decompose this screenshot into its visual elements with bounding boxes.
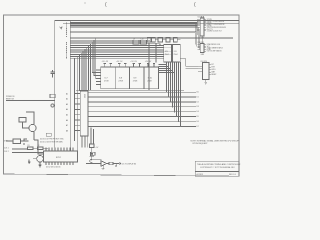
small part circle on edge [51, 104, 54, 107]
svg-text:IC5: IC5 [165, 51, 168, 53]
shift register IC6 body [173, 45, 181, 63]
wire left fan drop 3 [77, 56, 79, 151]
wire CPU data line D2 [88, 101, 196, 103]
bus label vertical text ADDRESS [66, 22, 68, 37]
svg-text:2708: 2708 [147, 81, 152, 83]
resistor R20 block [19, 117, 26, 121]
wire EPROM right pin rung 3 [158, 68, 170, 70]
svg-text:REV 3 6: REV 3 6 [229, 174, 236, 176]
wire left fan drop 2 [73, 58, 75, 141]
wire q2 base [22, 122, 28, 128]
wire address bus line 3 [70, 44, 164, 46]
wire IC5 bottom pin drop 1 to D0 [166, 62, 168, 92]
wire EPROM right pin rung 4 [158, 70, 172, 72]
wire bus A line 2 [70, 23, 197, 25]
wire row3 line [12, 151, 44, 153]
wire into 8212 left [34, 140, 44, 154]
wire left fan drop 5 [80, 53, 82, 91]
wire R2 out [43, 147, 48, 149]
svg-text:2708: 2708 [133, 81, 138, 83]
small box pair above 8212 [46, 133, 51, 136]
svg-text:CLK TO DISPLAY BD: CLK TO DISPLAY BD [121, 162, 136, 165]
IC4 ground mark [204, 80, 207, 85]
EPROM divider 1 [114, 67, 116, 89]
svg-text:(: ( [194, 2, 196, 8]
wire address bus line 7 [70, 50, 164, 52]
board outline (inner box left edge + top edge) [55, 20, 239, 151]
IC2 top stubs [201, 16, 203, 18]
wire address bus line 11 [70, 57, 164, 59]
wire diode to opamp [92, 156, 102, 160]
wire q2 collector up [26, 112, 34, 125]
svg-text:POWER ON: POWER ON [6, 96, 14, 98]
wire line under EPROM [76, 89, 184, 91]
title block box [195, 161, 239, 176]
wire left fan drop 10 [89, 44, 91, 90]
wire address bus line 5 [70, 46, 164, 48]
resistor R31 on board edge [50, 94, 55, 97]
svg-text:+5V -5V: +5V -5V [116, 61, 123, 63]
wire row2 line [12, 148, 28, 150]
wire CPU data line D4 [88, 111, 196, 113]
bus label vertical text CONTROL [66, 42, 68, 59]
wire bus B line 1 [70, 30, 196, 32]
svg-text:+5V -5V: +5V -5V [145, 61, 152, 63]
wire bus A line 4 [70, 26, 197, 28]
CPU left pin 5 [74, 114, 80, 116]
wire EPROM left pin stub 4 [96, 80, 101, 82]
wire q2 emitter down [33, 131, 35, 140]
svg-text:INT: INT [211, 64, 214, 66]
wire long line y37.5 [70, 37, 233, 39]
CPU left pin 6 [74, 119, 80, 121]
EPROM top decoupling marks cell3 [132, 63, 140, 65]
svg-text:COPYRIGHT © 1977 TECHNICAL INC: COPYRIGHT © 1977 TECHNICAL INC. [200, 166, 236, 169]
wire bus line y23 [63, 22, 239, 24]
wire IC6 bottom pin drop 6 to D5 [176, 62, 178, 117]
wire left fan drop 8 [86, 47, 88, 91]
wire left fan drop 11 to EPROM pin [92, 42, 101, 73]
wire gate drop A [148, 43, 150, 90]
EPROM divider 2 [129, 67, 131, 89]
wire CPU data line D0 [88, 91, 196, 93]
CPU left pin 4 [74, 108, 80, 110]
svg-text:D2: D2 [196, 101, 198, 103]
wire CPU data line D6 [88, 121, 196, 123]
transistor Q1 circle [37, 155, 44, 162]
EPROM bank IC7-IC10 outline [101, 67, 159, 89]
svg-text:D1 D2 D3 D4 D5 D6: D1 D2 D3 D4 D5 D6 [46, 166, 61, 168]
wire bus A line 3 [70, 24, 197, 26]
resistor R7 [109, 162, 113, 165]
8212 bottom pins [46, 162, 73, 165]
svg-text:D4 D5 D6 D7 PH1 PH2 RDY SYNC: D4 D5 D6 D7 PH1 PH2 RDY SYNC [40, 138, 65, 140]
wire to diode [91, 147, 93, 153]
svg-text:D7: D7 [196, 126, 198, 128]
svg-text:THE ALGORITHM: TIMING AND CONT: THE ALGORITHM: TIMING AND CONTROLLER [197, 163, 241, 166]
wire IC6 bottom pin drop 8 to D7 [180, 62, 182, 126]
EPROM top pin pair cell2 [119, 64, 125, 67]
wire left fan drop 7 [84, 49, 86, 91]
wire EPROM left pin stub 1 [96, 69, 101, 71]
svg-text:+5V -5V: +5V -5V [102, 61, 109, 63]
wire drop to bottom parts [91, 127, 94, 144]
out terminal circle [119, 163, 121, 165]
gate G6 small box [166, 38, 170, 42]
EPROM top decoupling marks cell1 [104, 63, 112, 65]
svg-text:2504: 2504 [165, 54, 169, 56]
svg-text:INTA STATUS LINE: INTA STATUS LINE [207, 43, 220, 46]
wire address bus line 10 [70, 55, 164, 57]
svg-text:A 12813: A 12813 [196, 173, 203, 176]
resistor R2 [37, 147, 43, 149]
wire EPROM right pin rung 5 [158, 72, 174, 74]
cap C6 [115, 163, 117, 166]
CPU IC1 8080 body [80, 91, 88, 136]
svg-text:A2: A2 [66, 98, 68, 101]
svg-text:8212: 8212 [56, 157, 62, 159]
wire gather bar IC2 [196, 20, 198, 35]
svg-text:A3: A3 [66, 103, 68, 106]
svg-text:D4: D4 [196, 111, 198, 113]
svg-text:A6: A6 [66, 119, 68, 122]
resistor R6 [90, 152, 95, 155]
IC3 status latch rect [200, 44, 204, 53]
wire CPU data line D5 [88, 116, 196, 118]
CPU left pin 1 [74, 92, 80, 94]
wire IC6 bottom pin drop 7 to D6 [178, 62, 180, 122]
IC2 clock generator rect [200, 18, 204, 36]
resistor R1 [27, 147, 33, 149]
svg-text:C9: C9 [133, 39, 135, 41]
diode D1 [90, 153, 93, 156]
wire CPU data line D1 [88, 96, 196, 98]
gate G3 small box [147, 38, 151, 42]
svg-text:C10: C10 [141, 39, 144, 41]
title block divider [195, 171, 239, 173]
latch IC11 8212 body [44, 151, 78, 162]
wire IC6 bottom pin drop 5 to D4 [174, 62, 176, 112]
CPU bottom pin stubs [81, 136, 87, 148]
wire bus B line 2 [70, 32, 195, 34]
svg-text:R2: R2 [37, 145, 39, 147]
svg-text:UPON REQUEST: UPON REQUEST [192, 143, 208, 145]
svg-text:INTE: INTE [211, 67, 214, 69]
svg-text:A1: A1 [66, 92, 68, 95]
wire IC6 left feed rungs [162, 47, 173, 54]
svg-text:A8: A8 [66, 129, 68, 132]
wire left fan drop 6 [82, 51, 84, 91]
wire EPROM right pin rung 1 [158, 64, 166, 66]
gate G5 small box [158, 38, 163, 42]
svg-text:4.0 MHZ CLOCK OUT: 4.0 MHZ CLOCK OUT [207, 30, 222, 32]
wire IC2 to IC3 [201, 36, 203, 44]
svg-text:NOTE: INTERNAL SIGNAL LINES WI: NOTE: INTERNAL SIGNAL LINES WITHIN CPU G… [190, 140, 239, 143]
wire address bus line 1 [70, 39, 150, 41]
wire xtal row [6, 139, 29, 145]
gate G1 small box [133, 40, 139, 44]
wire EPROM right pin rung 2 [158, 66, 168, 68]
wire left fan drop 9 [88, 46, 90, 91]
wire buffer out [107, 162, 109, 164]
IC2 left pins [197, 20, 200, 31]
svg-text:HOLD: HOLD [211, 69, 216, 71]
svg-text:(: ( [105, 2, 107, 8]
svg-text:2708: 2708 [104, 80, 109, 82]
wire R7 out [113, 162, 119, 164]
wire left fan drop 13 to EPROM pin [96, 38, 101, 79]
wire clock out line [86, 163, 101, 165]
crystal XTAL box [13, 139, 21, 143]
transistor Q3 marks [89, 155, 92, 163]
stray mark dot top [85, 2, 86, 3]
svg-text:A5: A5 [66, 113, 68, 116]
wire R1-R2 [33, 147, 37, 149]
cap C12 near edge [51, 70, 55, 78]
wire bus collector bar [70, 20, 72, 151]
transistor Q2 circle [29, 124, 36, 131]
svg-text:IC10: IC10 [148, 78, 153, 80]
wire gate drop B [155, 43, 157, 63]
wire address bus line 6 [70, 48, 164, 50]
svg-text:D1: D1 [196, 96, 198, 98]
svg-text:D5: D5 [196, 116, 198, 118]
junction dots on data lines [166, 92, 181, 127]
svg-text:2708: 2708 [118, 80, 123, 82]
buffer U2 triangle [101, 161, 107, 166]
IC4 bus driver rect [203, 63, 209, 80]
svg-text:IC4 8216: IC4 8216 [201, 61, 208, 63]
resistor R5 bottom [89, 144, 94, 147]
svg-text:8080: 8080 [83, 94, 85, 98]
wire CPU data line D3 [88, 106, 196, 108]
wire IC6 right to bus driver [180, 59, 198, 69]
IC4 left pins [198, 66, 203, 71]
svg-text:IC6: IC6 [174, 51, 177, 53]
svg-text:R1: R1 [27, 145, 29, 147]
wire IC5 bottom pin drop 3 to D2 [170, 62, 172, 102]
svg-text:CLK 1: CLK 1 [4, 147, 9, 149]
CPU left pin 2 [74, 98, 80, 100]
svg-text:IC8: IC8 [119, 77, 123, 79]
wire EPROM left pin stub 5 [96, 83, 101, 85]
shift register IC5 body [164, 45, 172, 63]
EPROM divider 3 [143, 67, 145, 89]
junction dots EPROM right rungs [166, 64, 175, 73]
gate G7 small box [174, 38, 178, 42]
CPU left pin 7 [74, 124, 80, 126]
EPROM top pin pair cell1 [105, 64, 111, 67]
IC3 left pins [197, 45, 200, 50]
svg-text:D0: D0 [196, 92, 198, 94]
wire bus A line 1 [70, 21, 197, 23]
svg-text:CLK 2: CLK 2 [4, 151, 9, 153]
svg-text:+5V: +5V [95, 147, 98, 149]
IC2 right pins [204, 20, 206, 31]
ground below q1 [38, 162, 41, 167]
svg-text:D0 D1 D2 D3 INT INTE WR DBIN: D0 D1 D2 D3 INT INTE WR DBIN [40, 141, 62, 143]
svg-text:2504: 2504 [174, 54, 178, 56]
wire gate links [139, 40, 181, 42]
CPU left pin 3 [74, 103, 80, 105]
svg-text:+5V -5V: +5V -5V [130, 61, 137, 63]
gate G4 small box [152, 38, 155, 42]
ground below buffer [102, 165, 105, 170]
node + mark on board edge [60, 26, 63, 29]
wire IC5 bottom pin drop 2 to D1 [168, 62, 170, 97]
EPROM top pin pair cell4 [148, 64, 154, 67]
svg-text:A7: A7 [66, 124, 68, 127]
EPROM top decoupling marks cell2 [118, 63, 126, 65]
svg-text:IC9: IC9 [133, 78, 137, 80]
svg-text:D3: D3 [196, 106, 198, 108]
CPU left pin 8 [74, 130, 80, 132]
wire address bus line 8 [70, 52, 164, 54]
wire left fan drop 4 [79, 55, 81, 91]
svg-text:GND: GND [201, 54, 205, 56]
wire q1 base [33, 158, 37, 160]
wire address bus line 9 [70, 54, 164, 56]
svg-text:IC7: IC7 [105, 77, 109, 79]
svg-text:A4: A4 [66, 108, 68, 111]
ground small left [28, 159, 31, 163]
wire power-on line [6, 99, 55, 101]
wire left fan drop 12 to EPROM pin [94, 40, 101, 75]
sheet border frame [3, 15, 239, 176]
wire IC6 bottom pin drop 4 to D3 [172, 62, 174, 107]
vertical link wires into IC2/IC3 [195, 22, 199, 49]
svg-text:RESET: RESET [211, 74, 216, 76]
EPROM top decoupling marks cell4 [147, 63, 155, 65]
IC3 right pins [204, 45, 206, 51]
svg-text:D6: D6 [196, 121, 198, 123]
8212 top pins [46, 147, 73, 151]
wire address bus line 2 [70, 41, 155, 43]
EPROM top pin pair cell3 [134, 64, 140, 67]
gate G2 small box [141, 40, 147, 44]
IC4 right pins [209, 65, 211, 75]
wire address bus line 4 [70, 45, 164, 47]
wire CPU data line D7 [88, 125, 196, 127]
